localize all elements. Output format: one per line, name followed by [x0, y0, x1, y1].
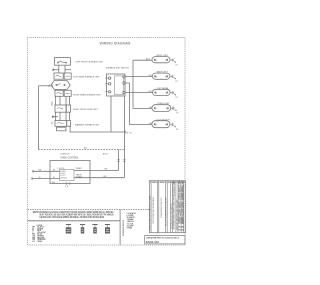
chart table column rules — [151, 181, 184, 233]
svg-text:D8: D8 — [182, 230, 184, 232]
svg-text:SURFACE UNITS OVEN BAKE BROIL: SURFACE UNITS OVEN BAKE BROIL CLEAN — [149, 195, 152, 231]
harness dashed wire — [39, 149, 125, 151]
riser wire E1/E4 — [133, 60, 152, 108]
chart dense rows mid — [173, 181, 175, 230]
wire SW1 to pair1 right — [64, 65, 66, 73]
svg-text:RIGHT FRONT SURF UNIT: RIGHT FRONT SURF UNIT — [73, 109, 99, 111]
switch SW3 (pair box left) — [55, 90, 63, 96]
svg-text:WIRING DIAGRAM: WIRING DIAGRAM — [100, 42, 131, 46]
svg-text:R3: R3 — [173, 185, 175, 187]
svg-text:TIMER: TIMER — [75, 168, 82, 170]
svg-text:BAKE UNIT: BAKE UNIT — [157, 71, 169, 74]
symbol key item 3 — [92, 225, 97, 234]
wires SW4 to SW5 — [56, 112, 70, 120]
svg-text:EQUIVALENT APPLIANCE WIRING MA: EQUIVALENT APPLIANCE WIRING MATERIAL AS … — [40, 216, 105, 219]
plug at E4 — [171, 107, 176, 111]
chart header dashes — [150, 181, 185, 183]
plug at E1 — [170, 59, 175, 63]
svg-text:28: 28 — [173, 225, 175, 227]
switch SW2 (pair box left) — [54, 73, 63, 79]
switch SW5 box — [55, 121, 71, 127]
left bus vertical wire — [38, 86, 40, 150]
plug labels — [175, 64, 178, 130]
svg-text:P2: P2 — [175, 81, 177, 83]
svg-text:LEFT FRONT SURFACE UNIT: LEFT FRONT SURFACE UNIT — [76, 60, 104, 63]
svg-text:GRAY: GRAY — [37, 240, 43, 243]
svg-text:30: 30 — [173, 228, 175, 230]
plug on riser x118 — [117, 159, 119, 162]
wire U1 to riser x124 — [74, 177, 124, 179]
element E4 capsule — [152, 105, 171, 112]
svg-text:FS1: FS1 — [52, 182, 55, 184]
wire L1 into U1 — [33, 170, 60, 172]
svg-text:BOARD: BOARD — [76, 176, 83, 179]
plug at E2 — [170, 75, 175, 79]
plug P4 — [125, 131, 128, 134]
tap wire with node dot at SW4 — [52, 116, 58, 117]
svg-text:D7: D7 — [182, 226, 184, 228]
svg-text:LEFT FRONT REAR RIGHT WARM: LEFT FRONT REAR RIGHT WARM — [152, 196, 155, 224]
svg-text:P1: P1 — [176, 64, 178, 66]
U1 terminal labels — [52, 182, 69, 188]
wire TB1 pin2 right — [125, 82, 129, 84]
symbol key item 2 — [80, 225, 85, 234]
plug marks left of SW4 — [51, 101, 54, 106]
wire SW1 to pair1 left — [58, 65, 60, 73]
wire hexagon to left bus — [39, 85, 51, 87]
svg-text:P4: P4 — [129, 133, 131, 135]
svg-text:5 FAN: 5 FAN — [127, 227, 133, 230]
svg-text:13: 13 — [173, 201, 175, 203]
wire TB1 bottom-left down — [110, 96, 112, 132]
color code rows — [32, 226, 46, 243]
svg-text:TOP TERML: TOP TERML — [157, 88, 170, 90]
wire N into U1 — [32, 177, 60, 179]
riser TB1 to oven control (right) — [123, 96, 125, 178]
bottom section dashed separator — [28, 208, 150, 210]
wires pair3 to SW4 — [56, 96, 70, 105]
svg-text:OVEN LIGHT: OVEN LIGHT — [157, 103, 170, 105]
svg-text:BROIL UNIT: BROIL UNIT — [157, 55, 169, 57]
U1 terminal cluster — [60, 169, 75, 180]
thermostat hexagon — [51, 81, 70, 90]
TB1 right pins — [123, 76, 125, 94]
U1 pin grid — [53, 170, 83, 180]
riser wire to E5 — [130, 83, 153, 125]
element E2 capsule — [152, 73, 170, 79]
TB1 left pins — [105, 77, 111, 93]
switch SW4 box — [55, 105, 71, 112]
wire to element E1 — [133, 59, 152, 61]
svg-text:BK W R Y BU GN BR OR GY BK W R: BK W R Y BU GN BR OR GY BK W R — [166, 197, 168, 226]
svg-text:CLOCK: CLOCK — [58, 168, 66, 170]
net list column — [127, 212, 137, 230]
tap wire right — [65, 69, 71, 71]
switch SW2 (pair box right) — [64, 73, 71, 79]
wire TB1 to element E2 — [125, 76, 152, 78]
svg-text:D6: D6 — [182, 223, 184, 225]
svg-text:DR BU 4: DR BU 4 — [60, 177, 67, 179]
wire U1 to riser x118 — [74, 169, 119, 171]
element E1 capsule — [152, 57, 170, 63]
svg-text:23: 23 — [173, 217, 175, 219]
svg-text:BODY: BODY — [103, 154, 109, 156]
plug at E3 — [171, 91, 176, 95]
vertical divider — [119, 209, 121, 245]
switch SW3 (pair box right) — [64, 90, 71, 96]
tap wire left with node dot — [53, 69, 59, 70]
svg-text:P6: P6 — [176, 129, 178, 131]
plug at E5 — [170, 123, 175, 127]
svg-text:316B2312 REV A: 316B2312 REV A — [122, 220, 125, 236]
plug marks left of SW5 — [51, 122, 54, 125]
title block box — [145, 236, 185, 244]
border frame — [28, 37, 185, 245]
symbol key item 1 — [66, 225, 71, 234]
svg-text:OVEN CONTROL: OVEN CONTROL — [60, 158, 79, 160]
svg-text:O8: O8 — [173, 193, 175, 195]
svg-text:18: 18 — [173, 209, 175, 211]
legend divider rule — [28, 220, 121, 222]
chart table frame — [149, 181, 185, 233]
svg-text:P5: P5 — [176, 113, 178, 115]
svg-text:CLEAN TIMED CONV OFF: CLEAN TIMED CONV OFF — [160, 197, 163, 218]
svg-text:LEFT REAR SURFACE UNIT: LEFT REAR SURFACE UNIT — [73, 76, 100, 79]
plug on riser x124 — [123, 159, 125, 162]
svg-text:P3: P3 — [176, 97, 178, 99]
svg-text:LOCK MOTOR: LOCK MOTOR — [156, 120, 170, 122]
terminal block TB1 outer — [107, 74, 126, 96]
svg-text:W: W — [39, 177, 41, 179]
oven control U1 box — [50, 160, 90, 183]
svg-text:PAGE 312: PAGE 312 — [146, 240, 160, 244]
switch SW1 (top box) — [55, 58, 71, 66]
symbol key item 4 — [105, 225, 110, 234]
U1 bottom terminals — [66, 182, 70, 184]
svg-text:WARMER SURFACE UNIT: WARMER SURFACE UNIT — [75, 124, 100, 127]
plug pair on hexagon wire — [49, 85, 53, 87]
fuse box below SW5 — [57, 126, 67, 131]
element E5 capsule — [152, 121, 170, 128]
svg-text:RIGHT REAR SURFACE UNIT: RIGHT REAR SURFACE UNIT — [73, 94, 101, 97]
terminal block TB1 inner — [115, 76, 124, 95]
wire SW5 down to P4 run — [70, 126, 125, 132]
element E3 capsule — [153, 89, 171, 95]
svg-text:SURFACE UNIT SWITCH: SURFACE UNIT SWITCH — [106, 67, 130, 70]
chart dense rows right — [178, 182, 184, 232]
wire TB1 pin3 to element E3 — [125, 92, 152, 94]
riser harness to oven control (left) — [118, 150, 120, 171]
svg-text:CONSOLE: CONSOLE — [60, 154, 70, 156]
